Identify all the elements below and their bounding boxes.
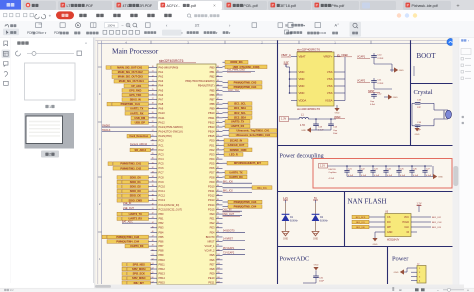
net label SDMMC_CMD <box>223 148 253 152</box>
svg-text:ACFLY...: ACFLY... <box>167 4 181 8</box>
net label PWM6/TIM3_CH2 <box>113 166 151 170</box>
svg-text:VCAP_1: VCAP_1 <box>205 244 216 248</box>
net label PWM(X)/TIM8_CH4 <box>223 85 263 89</box>
left icon strip <box>0 38 11 292</box>
net label SDIO_D1 <box>117 180 151 184</box>
svg-text:SPI2_SCK: SPI2_SCK <box>133 272 145 276</box>
svg-text:PD8: PD8 <box>209 175 215 179</box>
svg-text:CAN/AD_OUT: CAN/AD_OUT <box>228 143 245 147</box>
svg-text:PB14: PB14 <box>159 276 166 280</box>
svg-text:.pdf: .pdf <box>190 4 196 8</box>
svg-text:31: 31 <box>152 162 154 164</box>
net label UP_AD1 <box>124 84 151 88</box>
svg-text:62: 62 <box>217 75 219 77</box>
net 2nd_PWx <box>223 70 256 72</box>
svg-text:PB13: PB13 <box>208 125 215 129</box>
svg-text:MAIN_SIG_OUT-CH3: MAIN_SIG_OUT-CH3 <box>118 75 143 79</box>
svg-text:PWM6/TIM3_CH2: PWM6/TIM3_CH2 <box>120 166 141 170</box>
svg-text:GND: GND <box>301 130 306 132</box>
svg-text:PE11: PE11 <box>208 281 215 285</box>
net label UART6_TX <box>223 170 248 174</box>
svg-text:PC12: PC12 <box>159 194 166 198</box>
svg-text:54: 54 <box>152 268 154 270</box>
svg-text:30: 30 <box>152 158 154 160</box>
svg-text:PB8: PB8 <box>210 102 215 106</box>
svg-text:PA9: PA9 <box>159 107 164 111</box>
poweradc cap <box>315 270 317 276</box>
ocr btn <box>315 23 321 28</box>
svg-text:10uF: 10uF <box>319 281 325 283</box>
svg-text:MPU6500/AK8975_INT: MPU6500/AK8975_INT <box>234 161 261 165</box>
svg-text:PC13: PC13 <box>159 198 166 202</box>
svg-text:BK1_NCS: BK1_NCS <box>356 217 366 219</box>
svg-text:83: 83 <box>217 171 219 173</box>
sheet zone ticks left <box>98 66 102 68</box>
svg-text:WP: WP <box>387 226 391 229</box>
svg-text:⌗: ⌗ <box>181 31 183 35</box>
svg-text:W25Q64JV: W25Q64JV <box>387 239 400 242</box>
svg-text:82: 82 <box>217 167 219 169</box>
svg-text:2R.PDF: 2R.PDF <box>139 4 153 8</box>
svg-text:PB8: PB8 <box>159 249 164 253</box>
svg-text:+: + <box>456 3 459 9</box>
svg-text:49: 49 <box>152 245 154 247</box>
svg-text:PE3: PE3 <box>210 226 215 230</box>
svg-text:GND: GND <box>393 97 398 99</box>
svg-text:+: + <box>49 14 52 19</box>
svg-text:2: 2 <box>49 153 51 157</box>
svg-text:VSS: VSS <box>327 84 333 88</box>
net label UART1_TX <box>125 107 151 111</box>
svg-text:12: 12 <box>152 75 154 77</box>
net label UART6_RX <box>223 175 248 179</box>
svg-text:PE1: PE1 <box>210 217 215 221</box>
svg-text:SBUS_IN: SBUS_IN <box>130 98 141 102</box>
net label PWM(X)/TIM5_CH4 <box>223 205 263 209</box>
svg-text:Pixhawk..ide.pdf: Pixhawk..ide.pdf <box>412 4 438 8</box>
svg-text:VCAP_2: VCAP_2 <box>205 249 216 253</box>
svg-text:15: 15 <box>152 89 154 91</box>
tab 4TC电路图2R.PDF <box>114 1 158 10</box>
svg-text:UART2_TX: UART2_TX <box>129 212 142 216</box>
svg-text:4.7uF: 4.7uF <box>329 178 335 180</box>
read mode btn <box>91 23 97 28</box>
svg-text:I2C1_SDA: I2C1_SDA <box>234 106 246 110</box>
net label SDIO_CMD <box>117 198 151 202</box>
net SWCLK <box>102 129 151 132</box>
svg-text:SDIO_D1: SDIO_D1 <box>130 180 141 184</box>
svg-text:UART1_RX: UART1_RX <box>130 111 144 115</box>
svg-text:SWO_TDO: SWO_TDO <box>228 90 239 92</box>
svg-text:76: 76 <box>217 139 219 141</box>
svg-text:PC1: PC1 <box>159 143 165 147</box>
svg-text:PWM(X)/TIM4_CH3: PWM(X)/TIM4_CH3 <box>116 235 139 239</box>
svg-text:107: 107 <box>217 281 220 283</box>
main MCU U2 body <box>157 64 216 285</box>
svg-text:4.7R: 4.7R <box>300 125 305 127</box>
svg-text:95: 95 <box>217 226 219 228</box>
svg-text:PD3: PD3 <box>209 152 215 156</box>
svg-text:93: 93 <box>217 217 219 219</box>
svg-text:PB10: PB10 <box>208 111 215 115</box>
svg-text:88: 88 <box>217 194 219 196</box>
svg-text:78: 78 <box>217 149 219 151</box>
svg-text:3E"18.pdf: 3E"18.pdf <box>280 4 296 8</box>
tab 原理图PHu.pdf <box>312 1 359 10</box>
net swd <box>223 91 241 93</box>
svg-text:ODR2_IN1: ODR2_IN1 <box>230 60 243 64</box>
svg-text:PC0: PC0 <box>159 139 165 143</box>
pdf to image btn <box>60 23 65 28</box>
divider diode/nanflash vertical <box>344 192 346 247</box>
tab 稻壳 <box>23 1 56 10</box>
svg-text:19: 19 <box>152 107 154 109</box>
svg-text:PB0: PB0 <box>210 65 215 69</box>
svg-text:PB12: PB12 <box>159 267 166 271</box>
svg-text:MAIN_SIG_OUT-CH2: MAIN_SIG_OUT-CH2 <box>118 70 143 74</box>
svg-text:PC15(OSC32_OUT): PC15(OSC32_OUT) <box>159 207 183 211</box>
svg-text:SPI2_MOSI: SPI2_MOSI <box>132 267 146 271</box>
svg-text:1.1V: 1.1V <box>320 165 325 168</box>
floating assistant button <box>447 38 454 45</box>
svg-text:PC5: PC5 <box>159 162 165 166</box>
svg-text:42: 42 <box>152 213 154 215</box>
svg-text:BOOT0: BOOT0 <box>206 235 215 239</box>
play btn <box>76 23 81 28</box>
svg-text:1.3V: 1.3V <box>281 118 286 121</box>
thumbnail icon selected <box>2 50 11 59</box>
svg-text:41: 41 <box>152 208 154 210</box>
crystal Y1 <box>446 110 452 118</box>
hand tool <box>5 24 8 27</box>
net label PWM5/TIM3_CH1 <box>108 162 151 166</box>
svg-text:PE4: PE4 <box>210 230 215 234</box>
svg-text:SDMMC_CMD: SDMMC_CMD <box>230 148 247 152</box>
svg-text:+: + <box>467 289 469 292</box>
svg-text:64: 64 <box>217 84 219 86</box>
svg-text:⊞: ⊞ <box>285 23 288 27</box>
svg-text:PC8: PC8 <box>159 175 165 179</box>
svg-text:100: 100 <box>217 249 220 251</box>
net SWDIO <box>102 124 151 127</box>
net label MAIN_SIG_OUT-CH3 <box>112 75 151 79</box>
divider poweradc top <box>278 246 453 248</box>
page 1 label <box>45 105 48 108</box>
net label USB_DM <box>131 116 151 120</box>
svg-text:PD1: PD1 <box>209 143 215 147</box>
red annotation box <box>313 159 452 189</box>
svg-text:90: 90 <box>217 204 219 206</box>
svg-text:PD4: PD4 <box>209 157 215 161</box>
svg-text:I2C/AD_IN: I2C/AD_IN <box>230 139 242 143</box>
svg-text:51: 51 <box>152 254 154 256</box>
net label PWM(X)/TIM8_CH3 <box>223 81 263 85</box>
main MCU pins <box>151 65 223 284</box>
svg-text:PA4: PA4 <box>159 84 164 88</box>
svg-text:PWM(X)/TIM8_CH3: PWM(X)/TIM8_CH3 <box>234 81 257 85</box>
svg-text:DI: DI <box>407 231 410 234</box>
crystal wires <box>412 102 415 104</box>
svg-text:PB11: PB11 <box>208 116 215 120</box>
svg-text:PowerADC: PowerADC <box>280 256 310 263</box>
svg-text:Card_Detection: Card_Detection <box>129 134 148 138</box>
svg-text:PD13: PD13 <box>208 198 215 202</box>
tab bar <box>0 0 474 10</box>
svg-text:44: 44 <box>152 222 154 224</box>
svg-text:▾: ▾ <box>468 40 469 43</box>
svg-text:PC6: PC6 <box>159 166 165 170</box>
svg-text:PD6: PD6 <box>209 166 215 170</box>
divider boot/crystal horizontal <box>410 83 453 85</box>
net BAT_ADC <box>122 221 151 224</box>
svg-text:VBAT_A: VBAT_A <box>281 53 291 57</box>
power gnd arrow <box>407 267 411 269</box>
capacitor C14 <box>330 119 332 124</box>
svg-text:VCAP2: VCAP2 <box>357 80 366 83</box>
svg-text:PWM/TIM1_CH1: PWM/TIM1_CH1 <box>121 102 141 106</box>
net label I2C2_SDA <box>223 115 253 119</box>
svg-text:PE6: PE6 <box>210 258 215 262</box>
decoupling rail <box>328 165 433 167</box>
attach icon <box>4 71 8 76</box>
svg-text:61: 61 <box>217 71 219 73</box>
svg-text:0.5uf: 0.5uf <box>370 104 375 106</box>
svg-text:PA12: PA12 <box>159 120 166 124</box>
svg-text:14: 14 <box>152 84 154 86</box>
svg-text:PB1: PB1 <box>159 217 164 221</box>
svg-text:PC7: PC7 <box>159 171 165 175</box>
svg-text:57: 57 <box>152 281 154 283</box>
svg-text:PB9: PB9 <box>210 107 215 111</box>
svg-text:89: 89 <box>217 199 219 201</box>
vertical scrollbar <box>453 38 460 285</box>
svg-text:GND: GND <box>283 239 288 241</box>
print btn <box>288 23 293 28</box>
svg-text:PD14: PD14 <box>208 203 215 207</box>
VSS bus to gnd <box>344 57 346 101</box>
svg-text:37: 37 <box>152 190 154 192</box>
sheet outer border <box>96 40 453 42</box>
svg-text:SDIO_D0: SDIO_D0 <box>130 175 141 179</box>
svg-text:43: 43 <box>152 217 154 219</box>
divider poweradc/power vertical <box>387 247 389 285</box>
svg-text:105: 105 <box>217 272 220 274</box>
svg-text:PB2: PB2 <box>159 221 164 225</box>
svg-text:2/2: 2/2 <box>195 23 200 27</box>
svg-text:stm32F405RGT6: stm32F405RGT6 <box>159 59 184 63</box>
svg-text:10: 10 <box>152 66 154 68</box>
svg-text:25: 25 <box>152 135 154 137</box>
capacitor C13 <box>315 118 317 120</box>
gnd left of caps <box>316 129 331 131</box>
svg-text:IMU_INT: IMU_INT <box>134 281 145 285</box>
net label UART2_RX <box>117 217 151 221</box>
flash left labels <box>352 215 379 219</box>
svg-text:PE9: PE9 <box>210 272 215 276</box>
svg-text:GND: GND <box>394 272 399 274</box>
svg-text:NRST: NRST <box>207 239 214 243</box>
svg-text:PB9: PB9 <box>159 253 164 257</box>
svg-text:B.06Hz: B.06Hz <box>320 221 328 223</box>
svg-text:34: 34 <box>152 176 154 178</box>
svg-text:VDDA: VDDA <box>299 99 307 103</box>
svg-text:PC9: PC9 <box>159 180 165 184</box>
document area <box>94 38 466 292</box>
svg-text:55: 55 <box>152 272 154 274</box>
net label Ultrasonic_Trig/TIM10_CH1 <box>223 129 278 133</box>
find btn highlighted <box>350 22 362 37</box>
capacitor C11 <box>371 78 384 86</box>
svg-text:×: × <box>213 3 216 8</box>
net label MAIN_SIG_OUT-CH4 <box>114 79 151 83</box>
svg-text:SDIO_D2: SDIO_D2 <box>130 185 141 189</box>
svg-text:GND: GND <box>415 134 420 136</box>
promo icons right <box>397 13 401 17</box>
svg-text:103: 103 <box>217 263 220 265</box>
svg-text:BOOT: BOOT <box>417 52 437 60</box>
svg-text:PB12: PB12 <box>208 120 215 124</box>
svg-text:1.1V: 1.1V <box>284 61 289 64</box>
svg-text:PC14(OSC32_IN): PC14(OSC32_IN) <box>159 203 180 207</box>
svg-text:PB13: PB13 <box>159 272 166 276</box>
svg-text:PC2: PC2 <box>159 148 165 152</box>
svg-text:SDIO_CK: SDIO_CK <box>130 194 141 198</box>
svg-text:PC3: PC3 <box>159 152 165 156</box>
svg-text:PB10: PB10 <box>159 258 166 262</box>
select tool highlighted <box>3 29 19 36</box>
svg-text:5V: 5V <box>314 197 317 200</box>
svg-text:LED_R: LED_R <box>229 152 238 156</box>
svg-text:stm32F405RGT6: stm32F405RGT6 <box>297 107 320 111</box>
svg-text:PB3(JTDO/TRACESWO): PB3(JTDO/TRACESWO) <box>185 79 214 83</box>
panel toolbar <box>16 51 21 56</box>
svg-text:18: 18 <box>152 103 154 105</box>
net label SPI2_MISO <box>122 276 153 280</box>
svg-text:PHu.pdf: PHu.pdf <box>331 4 344 8</box>
svg-text:PWM(X)/TIM5_CH4: PWM(X)/TIM5_CH4 <box>234 205 257 209</box>
svg-text:SPI2_MISO: SPI2_MISO <box>132 276 145 280</box>
svg-text:GND: GND <box>314 265 319 267</box>
svg-text:27: 27 <box>152 144 154 146</box>
svg-text:98: 98 <box>217 240 219 242</box>
svg-text:PB3: PB3 <box>159 226 164 230</box>
pdf to office btn <box>36 23 42 28</box>
svg-text:2x_VREF: 2x_VREF <box>337 53 349 57</box>
svg-text:UART3_RX: UART3_RX <box>130 244 144 248</box>
svg-text:2nd_PWM_GND: 2nd_PWM_GND <box>227 69 245 72</box>
net label MAIN_SIG_OUT-CH2 <box>112 70 151 74</box>
svg-text:VREF: VREF <box>334 116 341 119</box>
svg-text:VSS: VSS <box>327 70 333 74</box>
svg-text:PE2: PE2 <box>210 221 215 225</box>
svg-text:PDF: PDF <box>27 31 33 35</box>
svg-text:45: 45 <box>152 226 154 228</box>
divider nanflash top <box>278 191 453 193</box>
svg-text:BK1_IO2: BK1_IO2 <box>432 217 442 219</box>
svg-text:70: 70 <box>217 112 219 114</box>
svg-text:PB7: PB7 <box>159 244 164 248</box>
svg-text:VDD: VDD <box>299 84 305 88</box>
svg-text:MAIN_SIG_OUT-CH4: MAIN_SIG_OUT-CH4 <box>119 79 144 83</box>
net label UART5_RX <box>223 124 251 128</box>
tab ACFLY...原理.pdf <box>158 1 222 10</box>
svg-text:UART6_RX: UART6_RX <box>229 175 243 179</box>
page 2 thumbnail selected <box>25 113 75 149</box>
page 2 label <box>41 151 59 158</box>
svg-text:PA7: PA7 <box>159 97 164 101</box>
svg-text:Main Processor: Main Processor <box>112 47 159 56</box>
svg-text:91: 91 <box>217 208 219 210</box>
svg-text:48: 48 <box>152 240 154 242</box>
fit icons row <box>103 30 107 34</box>
svg-text:VREF+: VREF+ <box>323 55 332 59</box>
svg-text:GND: GND <box>373 244 378 246</box>
svg-text:39: 39 <box>152 199 154 201</box>
net label PWM(X)/TIM4_CH4 <box>107 240 151 244</box>
svg-text:35: 35 <box>152 181 154 183</box>
svg-text:4TC: 4TC <box>123 4 130 8</box>
svg-text:PB14: PB14 <box>208 130 215 134</box>
svg-text:GND: GND <box>387 231 393 234</box>
svg-text:67: 67 <box>217 98 219 100</box>
svg-text:PD12: PD12 <box>208 194 215 198</box>
divider vertical main <box>277 40 279 284</box>
svg-text:47: 47 <box>152 236 154 238</box>
svg-text:104: 104 <box>217 268 220 270</box>
svg-text:33: 33 <box>152 171 154 173</box>
svg-text:60: 60 <box>217 66 219 68</box>
svg-text:53: 53 <box>152 263 154 265</box>
svg-text:UART6_TX: UART6_TX <box>229 170 242 174</box>
svg-text:96: 96 <box>217 231 219 233</box>
svg-text:56: 56 <box>152 277 154 279</box>
svg-text:VCC: VCC <box>404 216 409 219</box>
search box <box>187 14 190 17</box>
svg-text:.PDF: .PDF <box>85 4 94 8</box>
svg-text:99: 99 <box>217 245 219 247</box>
svg-text:1.2V: 1.2V <box>417 203 422 206</box>
svg-text:84: 84 <box>217 176 219 178</box>
net label SD_AD12 <box>130 148 153 152</box>
svg-text:PE10: PE10 <box>208 276 215 280</box>
bookmark icon <box>4 41 8 46</box>
vcap gnd rail <box>373 60 375 64</box>
decoupling caps C21-C27 <box>344 165 353 177</box>
net label SDIO_D0 <box>117 175 151 179</box>
diode D2 <box>312 197 329 241</box>
pdf page <box>96 38 453 285</box>
VDD bus <box>289 67 291 93</box>
svg-text:13: 13 <box>152 80 154 82</box>
svg-text:21: 21 <box>152 116 154 118</box>
net label UART5_TX <box>223 120 251 124</box>
svg-text:CLK: CLK <box>404 226 409 229</box>
svg-text:I2C2_SCL: I2C2_SCL <box>234 111 246 115</box>
svg-text:PA14(JTCK-SWCLK): PA14(JTCK-SWCLK) <box>159 130 184 134</box>
svg-text:PD15: PD15 <box>208 207 215 211</box>
svg-text:DEC20: DEC20 <box>329 169 337 171</box>
svg-text:Office ▾: Office ▾ <box>36 31 47 35</box>
svg-text:GND: GND <box>438 177 443 179</box>
svg-text:GPS_TXD: GPS_TXD <box>129 93 141 97</box>
svg-text:PA6: PA6 <box>159 93 164 97</box>
svg-text:20: 20 <box>152 112 154 114</box>
svg-text:66: 66 <box>217 94 219 96</box>
svg-text:46: 46 <box>152 231 154 233</box>
status bar <box>0 288 474 292</box>
svg-text:BK1_IO1: BK1_IO1 <box>257 188 267 190</box>
net label I2C1_SDA <box>223 106 253 110</box>
